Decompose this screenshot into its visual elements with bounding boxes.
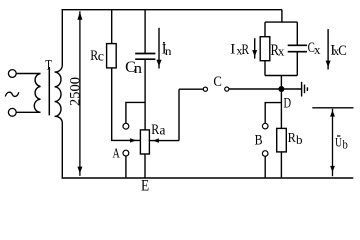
svg-text:x: x <box>314 42 321 57</box>
svg-text:a: a <box>160 122 166 137</box>
svg-text:C: C <box>213 74 222 90</box>
svg-text:D: D <box>284 94 292 111</box>
svg-text:A: A <box>113 145 121 161</box>
svg-text:U: U <box>335 136 342 150</box>
svg-text:b: b <box>296 132 303 147</box>
svg-text:B: B <box>255 132 263 148</box>
svg-text:R: R <box>288 129 296 145</box>
svg-text:E: E <box>141 178 149 195</box>
svg-text:T: T <box>45 56 52 73</box>
svg-text:c: c <box>98 49 104 64</box>
svg-text:b: b <box>343 138 348 152</box>
svg-text:2500: 2500 <box>67 77 83 106</box>
svg-text:R: R <box>242 41 250 58</box>
svg-text:I: I <box>230 42 235 58</box>
svg-text:n: n <box>134 61 142 77</box>
svg-text:n: n <box>165 45 172 58</box>
svg-text:x: x <box>278 43 285 58</box>
svg-text:C: C <box>338 43 347 59</box>
